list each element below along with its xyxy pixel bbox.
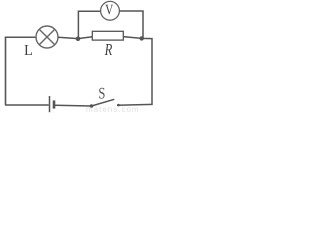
svg-text:matens.com: matens.com bbox=[86, 105, 140, 114]
